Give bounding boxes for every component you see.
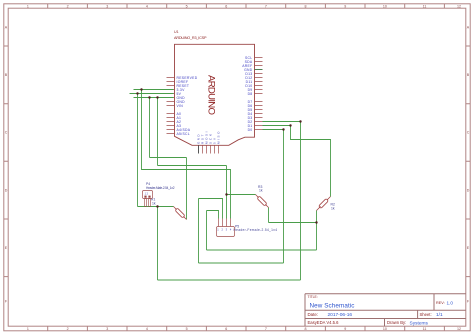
wire horizontal to R1 bottom (150, 157, 187, 159)
svg-text:Header-Male-2.54_1x2: Header-Male-2.54_1x2 (146, 186, 175, 190)
resistor R2 (317, 197, 331, 211)
svg-text:1k: 1k (331, 207, 335, 211)
connector P5 pins (219, 219, 231, 227)
svg-text:Date:: Date: (308, 312, 319, 317)
wire 5V branch down to P5 pin 4 (142, 90, 231, 219)
svg-text:10: 10 (383, 4, 387, 8)
wire GND row 1 (130, 93, 174, 95)
U1 left pins RESERVED..VIN A0..A5 (167, 78, 175, 134)
U1 left pin name labels (177, 76, 198, 136)
svg-text:2017-06-16: 2017-06-16 (328, 312, 353, 318)
junction dot 5V row (140, 88, 142, 90)
svg-text:1.0: 1.0 (447, 300, 454, 305)
svg-text:D0: D0 (248, 128, 253, 132)
svg-text:VIN: VIN (177, 104, 184, 108)
U1 right pin name labels (242, 56, 253, 132)
wire P4 bottom rail (138, 206, 174, 208)
connector P4 pad squares (144, 196, 146, 198)
wire R3 to R2 bottom horizontal (269, 222, 317, 224)
svg-text:1k: 1k (259, 189, 263, 193)
svg-text:10: 10 (383, 327, 387, 331)
U1 ICSP bottom pins (203, 145, 219, 153)
wire branch to R3 top (227, 194, 256, 196)
svg-text:D8: D8 (248, 92, 253, 96)
wire P5 pin3 drop (226, 166, 228, 219)
svg-text:4: 4 (146, 4, 148, 8)
svg-text:5: 5 (186, 327, 188, 331)
wire bottom horizontal run (158, 279, 301, 281)
wire D0 pin horizontal (263, 129, 284, 131)
svg-text:7: 7 (265, 4, 267, 8)
junction dot D2 corner (299, 120, 301, 122)
wire P5 pin2 connection (199, 199, 223, 219)
svg-text:3: 3 (106, 4, 108, 8)
wire GND1 branch down to P4 (137, 94, 139, 207)
junction dot GND2 row B (156, 96, 158, 98)
svg-text:U1: U1 (174, 30, 179, 34)
connector P4 header male 1x2 body (143, 191, 153, 199)
svg-text:3: 3 (106, 327, 108, 331)
junction dot D1 corner (289, 124, 291, 126)
wire D2 vertical drop (300, 122, 302, 281)
wire drop from P4 rail junction (157, 207, 159, 281)
svg-text:Header-Female-2.54_1x4: Header-Female-2.54_1x4 (234, 228, 278, 232)
U1 ICSP pin labels (197, 131, 221, 144)
svg-text:11: 11 (423, 327, 427, 331)
junction dot GND1 row (136, 92, 138, 94)
svg-text:8: 8 (305, 327, 307, 331)
svg-text:C: C (5, 131, 8, 135)
svg-text:1: 1 (27, 327, 29, 331)
junction dot R2 bottom (315, 221, 317, 223)
svg-text:9: 9 (344, 327, 346, 331)
svg-text:6: 6 (225, 4, 227, 8)
wire D2 pin horizontal (263, 121, 301, 123)
svg-text:C: C (467, 131, 470, 135)
connector P4 pin legs (145, 199, 151, 207)
svg-text:8: 8 (305, 4, 307, 8)
svg-text:6: 6 (225, 327, 227, 331)
svg-text:A5/SCL: A5/SCL (177, 132, 191, 136)
svg-text:REV:: REV: (436, 301, 445, 305)
svg-text:1 2 3 4: 1 2 3 4 (217, 228, 232, 232)
svg-text:2: 2 (67, 327, 69, 331)
svg-text:7: 7 (265, 327, 267, 331)
svg-text:1: 1 (27, 4, 29, 8)
svg-text:D: D (5, 188, 8, 192)
svg-text:4: 4 (146, 327, 148, 331)
wire P5 pin1 connection (207, 211, 219, 219)
junction dot R3 top branch (225, 193, 227, 195)
IC U1 ARDUINO_R3_ICSP body (175, 44, 255, 145)
svg-text:12: 12 (457, 4, 461, 8)
svg-text:1k: 1k (152, 201, 156, 205)
svg-text:TITLE:: TITLE: (308, 295, 318, 299)
U1 right pins SCL..D8 D7..D0 (255, 58, 263, 130)
wire horizontal run to P5 pin1 net (207, 249, 317, 251)
svg-text:Systems: Systems (410, 320, 429, 326)
svg-text:D: D (467, 188, 470, 192)
wire D1 pin horizontal (263, 125, 291, 127)
svg-text:5: 5 (186, 4, 188, 8)
junction dot P4 rail (156, 205, 158, 207)
wire GND row 2 (134, 97, 174, 99)
svg-text:11: 11 (423, 4, 427, 8)
wire lower horizontal D0 to corner (199, 262, 284, 264)
svg-text:ARDUINO: ARDUINO (206, 75, 217, 115)
connector P5 header female 1x4 body (217, 227, 235, 237)
svg-text:1/1: 1/1 (436, 312, 443, 318)
svg-text:Sheet:: Sheet: (420, 312, 432, 317)
resistor R3 (256, 195, 269, 208)
junction dot D0 corner (282, 128, 284, 130)
wire D0 vertical drop (283, 130, 285, 264)
svg-text:ARDUINO_R3_ICSP: ARDUINO_R3_ICSP (174, 36, 207, 40)
wire R2 bottom junction drop (316, 223, 318, 251)
svg-text:MISO: MISO (217, 131, 221, 144)
wire horizontal to P5 pin3 (158, 165, 227, 167)
junction dot GND2 row A (148, 96, 150, 98)
title block (305, 294, 466, 326)
svg-text:New Schematic: New Schematic (310, 303, 355, 310)
wire 5V row (134, 89, 174, 91)
wire GND2 branch B down (157, 98, 159, 166)
svg-text:12: 12 (457, 327, 461, 331)
U1 right GND pin (dark) (255, 69, 263, 71)
wire GND2 branch A down (149, 98, 151, 158)
resistor R1 (174, 207, 187, 220)
wire vertical to R1 bottom lead (186, 158, 188, 220)
wire R2 bottom lead vertical (316, 211, 318, 223)
svg-text:2: 2 (67, 4, 69, 8)
wire R3 bottom vertical (268, 208, 270, 223)
wire vertical corner to P5 pin2 net (198, 199, 200, 264)
svg-text:EasyEDA V4.5.6: EasyEDA V4.5.6 (308, 320, 340, 325)
U1 ICSP GND pin (dark) (198, 145, 200, 153)
wire vertical up from run (206, 211, 208, 251)
svg-text:9: 9 (344, 4, 346, 8)
svg-text:Drawn By:: Drawn By: (387, 320, 406, 325)
wire D1 branch to R2 top (291, 126, 331, 197)
